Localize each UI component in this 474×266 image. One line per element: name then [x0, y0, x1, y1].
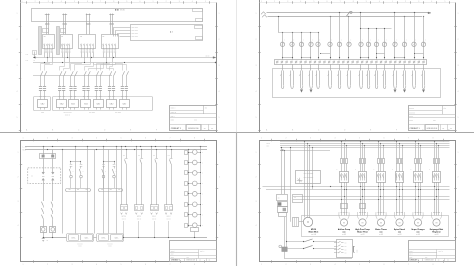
junction: [346, 145, 347, 146]
wire: [48, 14, 50, 25]
wire: [106, 53, 108, 55]
wire: [84, 48, 86, 49]
wire: [282, 64, 284, 70]
svg-text:5: 5: [205, 1, 206, 3]
wire: [84, 55, 86, 62]
junction: [380, 196, 381, 197]
disconnect switch: [75, 71, 77, 76]
wire: [52, 232, 54, 237]
wire MCC bus N2: [266, 189, 450, 191]
wire: [52, 158, 54, 168]
svg-text:2: 2: [458, 176, 459, 178]
feeder terminal box X6: [107, 100, 117, 108]
svg-text:4: 4: [192, 1, 193, 3]
terminal ring: [300, 61, 302, 63]
terminal ring: [281, 61, 283, 63]
wire: [52, 184, 54, 201]
wire: [62, 53, 64, 55]
terminal ring: [323, 61, 325, 63]
svg-text:3: 3: [219, 65, 220, 67]
wire: [115, 53, 117, 55]
junction: [436, 189, 437, 190]
contact block: [185, 224, 188, 228]
terminal pin: [39, 96, 41, 98]
svg-text:4: 4: [96, 138, 97, 140]
junction: [278, 16, 279, 17]
svg-text:xx kW: xx kW: [398, 234, 402, 236]
svg-text:xxx xxxx: xxx xxxx: [132, 33, 139, 35]
wire: [292, 32, 294, 41]
relay output module CRD: [99, 235, 109, 241]
svg-text:M: M: [399, 223, 401, 225]
relay coil KA7: [193, 212, 198, 217]
junction: [418, 189, 419, 190]
wire phase bus L2: [280, 143, 450, 145]
junction: [188, 193, 189, 194]
terminal ring: [305, 61, 307, 63]
contact block: [185, 182, 188, 186]
wire: [126, 164, 128, 205]
junction: [418, 196, 419, 197]
terminal pin: [69, 49, 70, 50]
wire: [312, 147, 314, 189]
disconnect switch: [88, 71, 90, 76]
svg-text:2: 2: [219, 176, 220, 178]
motor M0 main: [303, 217, 312, 226]
svg-text:5: 5: [256, 117, 257, 119]
svg-text:CREEAT 1: CREEAT 1: [171, 259, 180, 262]
junction: [396, 199, 397, 200]
wire: [292, 64, 294, 70]
wire: [60, 63, 65, 71]
relay terminal group: [67, 234, 94, 242]
junction: [420, 145, 421, 146]
cable tail W9: [359, 71, 361, 86]
wire: [43, 147, 45, 155]
switch row 3: [334, 249, 338, 251]
junction: [136, 146, 137, 147]
breaker pole: [64, 44, 66, 49]
svg-text:7: 7: [340, 1, 341, 3]
junction: [415, 199, 416, 200]
svg-text:1: 1: [392, 1, 393, 3]
junction: [384, 28, 385, 29]
terminal ring: [404, 61, 406, 63]
arrow control feed: [280, 149, 283, 151]
junction: [166, 146, 167, 147]
svg-text:xxx xx: xxx xx: [152, 218, 156, 220]
motor M2: [359, 219, 366, 226]
fuse F63: [439, 159, 440, 164]
current transformer CT: [99, 86, 102, 88]
cable tail W12: [383, 71, 385, 86]
connector K1.2: [52, 168, 54, 172]
terminal ring: [342, 61, 344, 63]
svg-text:xxx x: xxx x: [409, 116, 413, 118]
arrow A: [213, 57, 216, 59]
terminal pin: [108, 96, 110, 98]
wire: [63, 25, 65, 35]
feeder terminal box X7: [120, 100, 130, 108]
fuse F52: [418, 159, 419, 164]
wire phase bus L1: [280, 141, 450, 143]
svg-text:xxx xxx: xxx xxx: [77, 243, 82, 245]
terminal unit DIS 2: [165, 205, 173, 211]
auxiliary supply box: [277, 195, 288, 201]
wire: [284, 150, 286, 194]
wire: [402, 145, 404, 158]
wire: [434, 141, 436, 158]
svg-text:xx: xx: [211, 128, 213, 130]
wire: [420, 164, 422, 172]
svg-text:2: 2: [18, 176, 19, 178]
wire: [65, 25, 67, 35]
wire: [188, 150, 190, 228]
wire: [399, 182, 401, 215]
node T3: [86, 14, 88, 16]
wire: [368, 47, 370, 60]
wire: [114, 174, 116, 176]
contact NO: [102, 169, 104, 174]
disconnect switch: [41, 71, 43, 76]
junction: [188, 162, 189, 163]
wire: [394, 64, 396, 70]
relay module K0b: [61, 29, 66, 33]
junction: [309, 145, 310, 146]
fuse switch F9: [359, 42, 363, 46]
junction: [67, 57, 68, 58]
junction: [330, 57, 331, 58]
junction: [339, 12, 340, 13]
terminal pin: [364, 212, 366, 214]
lamp H1: [279, 245, 282, 248]
junction: [301, 57, 302, 58]
wire: [415, 182, 417, 215]
node T1: [45, 14, 47, 16]
isolator box: [360, 204, 366, 209]
wire: [110, 14, 112, 25]
svg-text:x-x: x-x: [153, 155, 155, 157]
contactor KM5: [414, 172, 423, 183]
wire: [116, 63, 123, 71]
wire: [84, 76, 86, 86]
terminal pin: [44, 49, 45, 50]
svg-text:1: 1: [256, 152, 257, 154]
power supply stack PS2: [278, 207, 288, 213]
node B end: [215, 62, 216, 63]
svg-text:7: 7: [170, 138, 171, 140]
svg-text:xx: xx: [209, 260, 211, 262]
svg-text:xxxx: xxxx: [41, 112, 44, 114]
wire: [341, 164, 343, 172]
relay output module CRD: [69, 235, 79, 241]
wire bus B: [33, 62, 216, 64]
terminal marks: [151, 213, 153, 215]
wire: [89, 25, 91, 35]
fuse switch F4: [309, 42, 313, 46]
junction: [415, 141, 416, 142]
disconnect switch: [96, 71, 98, 76]
svg-text:xx: xx: [442, 128, 444, 130]
wire: [47, 48, 49, 49]
pin mark: [304, 173, 306, 175]
junction: [43, 146, 44, 147]
cable tail W2: [290, 71, 292, 86]
current transformer CT: [73, 86, 76, 88]
wire: [100, 76, 102, 86]
junction: [282, 57, 283, 58]
terminal pin: [99, 96, 101, 98]
wire: [109, 48, 111, 49]
junction: [360, 186, 361, 187]
svg-text:xxx xxxx: xxx xxxx: [132, 36, 139, 38]
breaker pole: [93, 44, 95, 49]
svg-text:xxx xx: xxx xx: [122, 218, 126, 220]
terminal marks: [121, 213, 123, 215]
junction: [154, 237, 155, 238]
svg-text:3: 3: [18, 201, 19, 203]
wire: [396, 141, 398, 158]
junction: [344, 196, 345, 197]
wire: [436, 164, 438, 172]
terminal ring: [276, 61, 278, 63]
wire phase bus L2: [268, 16, 423, 18]
svg-text:4: 4: [256, 225, 257, 227]
wire: [52, 53, 54, 55]
wire: [360, 64, 362, 70]
wire: [44, 55, 46, 58]
wire: [284, 252, 286, 259]
wire: [339, 47, 341, 60]
wire: [62, 55, 64, 58]
wire: [43, 221, 45, 227]
junction: [123, 237, 124, 238]
terminal ring: [385, 61, 387, 63]
wire: [436, 143, 438, 158]
terminal unit MTC5: [135, 205, 144, 211]
svg-text:M: M: [380, 223, 382, 225]
junction: [318, 32, 319, 33]
feeder terminal box X5: [94, 100, 104, 108]
svg-text:xxxx: xxxx: [171, 257, 174, 259]
wire: [67, 48, 69, 49]
junction: [415, 186, 416, 187]
svg-text:8: 8: [353, 1, 354, 3]
terminal ring: [319, 61, 321, 63]
svg-text:5A2₂: 5A2₂: [84, 237, 88, 240]
svg-text:M xx: M xx: [23, 150, 27, 152]
junction: [360, 141, 361, 142]
wire: [63, 76, 65, 86]
breaker pole: [47, 44, 49, 49]
wire: [59, 76, 61, 86]
cable gland loop: [357, 212, 359, 219]
pin mark: [307, 173, 309, 175]
cable tail W3: [300, 71, 302, 86]
wire: [414, 64, 416, 70]
svg-text:M: M: [307, 221, 309, 224]
junction: [114, 161, 115, 162]
junction: [348, 57, 349, 58]
junction: [404, 57, 405, 58]
svg-text:1: 1: [22, 1, 23, 3]
wire: [236, 0, 238, 132]
svg-text:xxx xx: xxx xx: [137, 218, 141, 220]
wire: [423, 64, 425, 70]
svg-text:M: M: [436, 223, 438, 225]
junction: [364, 189, 365, 190]
wire: [330, 47, 332, 60]
junction: [418, 143, 419, 144]
terminal pin: [125, 96, 127, 98]
contactor KM1: [340, 172, 349, 183]
junction: [200, 146, 201, 147]
svg-text:2: 2: [286, 138, 287, 140]
junction: [360, 12, 361, 13]
wire: [123, 221, 125, 237]
terminal marks: [136, 213, 138, 215]
pin mark: [311, 173, 313, 175]
svg-text:xx: xx: [204, 128, 206, 130]
terminal pin: [83, 96, 85, 98]
svg-text:xxx: xxx: [345, 249, 347, 251]
isolation module A1: [28, 168, 61, 184]
terminal pin: [115, 49, 116, 50]
wire: [106, 55, 108, 62]
wire: [109, 76, 111, 86]
svg-text:xxx: xxx: [345, 243, 347, 245]
current transformer CT: [108, 86, 111, 88]
contact NC: [113, 164, 116, 166]
wire: [310, 64, 312, 70]
svg-text:MTC4: MTC4: [122, 216, 126, 218]
motor M6: [433, 219, 440, 226]
svg-text:9: 9: [126, 1, 127, 3]
wire: [309, 145, 311, 217]
wire control line C2: [287, 248, 304, 250]
svg-text:GRESSODE: GRESSODE: [188, 128, 199, 130]
wire: [321, 53, 331, 55]
svg-text:Main MCC: Main MCC: [309, 232, 319, 234]
svg-text:x-x: x-x: [123, 155, 125, 157]
terminal pin: [84, 49, 85, 50]
disconnect switch: [100, 71, 102, 76]
feeder cubicle enclosure E2: [53, 97, 153, 111]
terminal ring: [423, 61, 425, 63]
svg-text:1: 1: [219, 13, 220, 15]
svg-text:xxx xx: xxx xx: [167, 218, 171, 220]
junction: [310, 32, 311, 33]
arrow cable end: [300, 90, 302, 93]
svg-text:2: 2: [166, 1, 167, 3]
wire: [282, 47, 284, 60]
wire: [69, 55, 71, 62]
wire MCC bus N1: [263, 186, 450, 188]
wire: [121, 147, 123, 206]
junction: [383, 189, 384, 190]
junction: [171, 149, 172, 150]
pin mark: [309, 173, 311, 175]
svg-text:2: 2: [256, 39, 257, 41]
junction: [434, 141, 435, 142]
junction: [156, 149, 157, 150]
junction: [434, 186, 435, 187]
svg-text:4: 4: [219, 91, 220, 93]
wire return bus M2: [94, 237, 97, 239]
ground: [42, 238, 45, 240]
wire: [423, 47, 425, 60]
svg-text:3: 3: [48, 1, 49, 3]
wire: [116, 147, 118, 234]
svg-text:4: 4: [219, 225, 220, 227]
junction: [378, 199, 379, 200]
breaker pole: [90, 44, 92, 49]
wire: [156, 150, 158, 159]
wire: [90, 55, 92, 62]
incoming supply symbol: [261, 12, 266, 15]
wire return line C3: [285, 258, 353, 260]
contact NC: [70, 164, 73, 166]
breaker pole: [106, 44, 108, 49]
junction: [399, 143, 400, 144]
wire: [360, 182, 362, 215]
junction: [62, 62, 63, 63]
wire: [383, 164, 385, 172]
circuit breaker Q4: [102, 35, 119, 49]
svg-text:xxxx: xxxx: [409, 257, 412, 259]
wire: [378, 182, 380, 215]
wire: [318, 64, 320, 70]
wire: [80, 178, 82, 188]
junction: [341, 199, 342, 200]
test point: [102, 175, 105, 178]
breaker pole: [62, 44, 64, 49]
wire: [81, 55, 83, 58]
wire: [109, 53, 111, 55]
wire: [404, 47, 406, 60]
wire: [418, 143, 420, 158]
disconnect switch: [110, 71, 112, 76]
wire relay link: [71, 161, 81, 163]
current transformer CT: [69, 86, 72, 88]
junction: [414, 12, 415, 13]
junction: [362, 189, 363, 190]
wire: [383, 182, 385, 215]
svg-text:xxx xxxx: xxx xxxx: [89, 112, 95, 114]
wire: [52, 55, 54, 62]
wire: [93, 53, 95, 55]
motor M5: [414, 219, 421, 226]
contactor KM3: [377, 172, 386, 183]
wire: [71, 63, 82, 71]
contact block: [185, 161, 188, 165]
fuse F33: [383, 159, 385, 164]
terminal pin: [401, 212, 403, 214]
wire: [62, 150, 64, 234]
svg-text:5A2₂: 5A2₂: [114, 237, 118, 240]
wire: [112, 53, 114, 55]
svg-text:8: 8: [113, 1, 114, 3]
svg-text:2: 2: [219, 39, 220, 41]
junction: [151, 146, 152, 147]
cable gland loop: [376, 212, 378, 219]
contact block: [185, 203, 188, 207]
protection relay panel RP1: [131, 25, 203, 41]
circuit breaker Q3: [79, 35, 96, 49]
power relay box: [282, 247, 287, 252]
svg-text:1: 1: [219, 152, 220, 154]
terminal pin: [396, 212, 398, 214]
